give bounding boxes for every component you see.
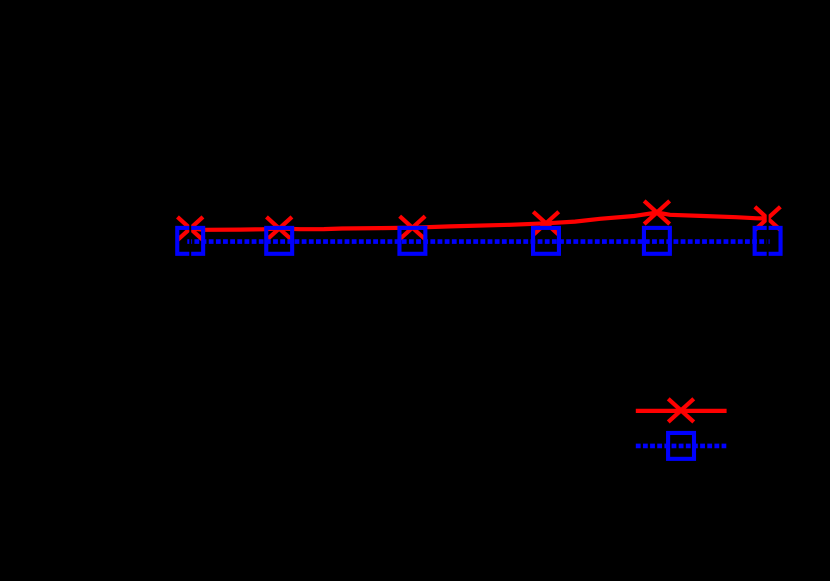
left axis spine (drawn over data) [189, 185, 191, 285]
red X marker 6 [755, 207, 781, 230]
red series line [190, 213, 767, 230]
blue square marker 1 [177, 228, 203, 254]
legend red sample line [636, 409, 727, 413]
red X marker 1 [177, 217, 203, 240]
red X marker 2 [266, 217, 292, 240]
blue square marker 4 [533, 228, 559, 254]
legend red X marker [668, 399, 694, 422]
legend blue square marker [668, 433, 694, 459]
red X marker 3 [400, 216, 426, 239]
blue square marker 3 [399, 228, 425, 254]
blue square marker 2 [266, 228, 292, 254]
blue series dashed line [187, 239, 769, 244]
right axis spine (drawn over data) [767, 185, 769, 285]
blue square marker 6 [755, 228, 781, 254]
legend blue dashed sample line [636, 444, 727, 449]
red X marker 5 [644, 201, 670, 224]
red X marker 4 [533, 212, 559, 235]
blue square marker 5 [644, 228, 670, 254]
